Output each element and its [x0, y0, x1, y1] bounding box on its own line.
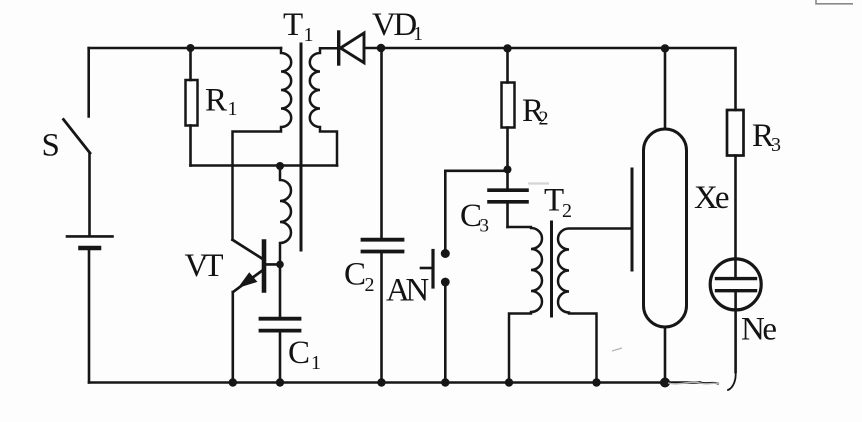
node bottom C1 — [276, 378, 284, 386]
svg-text:2: 2 — [562, 200, 572, 222]
battery short plate — [81, 246, 100, 251]
resistor R2 top wire — [506, 48, 509, 83]
capacitor C3 plates — [489, 188, 527, 192]
wire to pushbutton AN — [445, 171, 507, 249]
transistor VT emitter — [233, 271, 262, 293]
resistor R1 bottom wire — [189, 126, 192, 166]
node bottom T2 primary — [505, 378, 513, 386]
xenon tube trigger electrode — [631, 169, 634, 270]
battery bottom wire — [88, 250, 91, 382]
transistor VT collector — [233, 240, 263, 259]
transformer T2 core — [550, 222, 553, 316]
node AN lower contact — [441, 278, 450, 287]
svg-text:Ne: Ne — [741, 312, 776, 348]
neon lamp bottom wire — [734, 291, 737, 372]
T1 feedback winding — [280, 166, 291, 264]
node bottom Xe — [660, 378, 670, 388]
wire top-left horizontal — [89, 47, 281, 50]
switch S lower wire — [88, 153, 91, 235]
xenon tube Xe envelope — [644, 129, 687, 327]
wire bottom horizontal — [89, 381, 700, 384]
svg-text:3: 3 — [480, 216, 490, 237]
capacitor C1 top wire — [279, 264, 282, 318]
svg-text:1: 1 — [311, 352, 321, 374]
crop corner artifact top-right — [816, 0, 853, 4]
node AN upper contact — [441, 249, 450, 258]
svg-text:VT: VT — [185, 248, 224, 284]
node bottom emitter — [229, 378, 237, 386]
neon lamp Ne circle — [710, 259, 761, 310]
resistor R1 top wire — [189, 48, 192, 80]
capacitor C2 bottom wire — [380, 252, 383, 383]
svg-text:3: 3 — [771, 134, 781, 156]
switch S blade — [64, 120, 91, 154]
resistor R3 body — [727, 110, 744, 156]
xenon tube bottom wire — [664, 327, 667, 383]
capacitor C1 bottom wire — [279, 331, 282, 383]
transistor VT emitter arrow — [240, 274, 256, 287]
capacitor C2 top wire — [380, 48, 383, 238]
T2 primary winding — [508, 227, 543, 383]
resistor R2 body — [502, 83, 515, 128]
switch S upper stub — [87, 48, 90, 117]
watermark smudge tick — [612, 348, 622, 351]
svg-text:Xe: Xe — [694, 180, 729, 216]
node feedback winding top — [276, 162, 284, 170]
diode VD1 triangle — [341, 33, 365, 63]
wire top-right horizontal — [364, 48, 736, 110]
svg-text:C: C — [344, 257, 366, 293]
transistor VT emitter wire down — [232, 292, 235, 383]
svg-text:R: R — [205, 83, 227, 119]
node bottom AN — [441, 378, 449, 386]
svg-text:C: C — [288, 335, 310, 371]
transformer T1 core — [300, 44, 303, 250]
svg-text:2: 2 — [365, 274, 375, 296]
battery long plate — [67, 235, 113, 238]
faint smear above T2 — [528, 182, 549, 184]
T2 secondary winding — [558, 229, 632, 383]
watermark smudge squiggle — [668, 382, 719, 384]
diode VD1 cathode bar — [337, 32, 340, 64]
T1 secondary winding — [310, 48, 337, 165]
transistor VT base lead — [264, 263, 280, 266]
node top Xe — [661, 44, 669, 52]
resistor R2 bottom wire — [506, 128, 509, 170]
xenon tube top wire — [664, 48, 667, 129]
svg-text:T: T — [283, 7, 303, 43]
svg-text:2: 2 — [539, 108, 549, 130]
resistor R3 bottom wire — [734, 156, 737, 279]
neon lamp bottom hook — [728, 372, 736, 390]
capacitor C2 plates — [363, 238, 403, 242]
neon lamp Ne electrodes — [717, 277, 756, 280]
svg-text:1: 1 — [304, 24, 314, 46]
resistor R1 body — [186, 80, 198, 126]
capacitor C3 top wire — [506, 170, 509, 191]
node VT base — [276, 261, 284, 269]
svg-text:1: 1 — [228, 98, 238, 120]
node top R1 — [187, 44, 195, 52]
svg-text:AN: AN — [386, 273, 429, 309]
node top R2 — [503, 44, 511, 52]
node R2 bottom — [504, 166, 512, 174]
capacitor C3 bottom wire — [506, 202, 509, 227]
transistor VT base bar — [262, 242, 267, 291]
node bottom C2 — [377, 378, 385, 386]
T1 primary winding — [233, 48, 292, 240]
node bottom T2 secondary — [592, 378, 600, 386]
svg-text:S: S — [42, 128, 60, 164]
pushbutton AN lower wire — [444, 287, 447, 383]
svg-text:1: 1 — [413, 23, 423, 45]
capacitor C1 plates — [261, 317, 300, 321]
svg-text:VD: VD — [372, 7, 416, 43]
node top VD1/C2 — [377, 44, 386, 53]
pushbutton AN stub — [421, 267, 433, 270]
wire bias horizontal — [191, 164, 338, 167]
pushbutton AN bar — [431, 251, 434, 288]
